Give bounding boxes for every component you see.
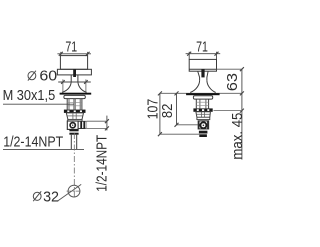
extension line 63 top: [217, 68, 242, 70]
svg-text:1/2-14NPT: 1/2-14NPT: [3, 134, 63, 150]
handle stem (side view): [201, 69, 204, 77]
dimension line 71 (front view): [57, 52, 91, 56]
svg-text:71: 71: [65, 39, 77, 55]
handle stem (front view): [73, 69, 76, 77]
neck taper (side view): [198, 71, 208, 80]
upper shank flange (side view): [193, 96, 212, 99]
bell escutcheon (side view): [190, 80, 216, 92]
lower shank nut (front view): [64, 110, 86, 113]
extension line 107: [160, 133, 199, 135]
tailpiece flange bands (side view): [199, 131, 208, 134]
tailpiece tube (front view): [71, 135, 76, 150]
handle knob (side view): [189, 59, 216, 71]
svg-text:32: 32: [43, 190, 59, 206]
cartridge cup (front view): [66, 113, 83, 120]
svg-text:63: 63: [225, 73, 241, 91]
dimension line 107: [158, 91, 162, 136]
upper shank flange (front view): [64, 95, 85, 98]
leader line diameter 32: [58, 184, 81, 201]
handle flange bar (front view): [57, 69, 91, 75]
right dimension line vertical (63 / max 45): [240, 67, 244, 159]
collar band (front view): [68, 119, 82, 121]
max mounting depth line: [214, 110, 242, 112]
lower shank nut (side view): [193, 108, 212, 111]
valve body (front view): [67, 121, 78, 129]
diameter label 60: [28, 68, 57, 84]
threaded shank (side view): [196, 99, 208, 108]
deck line (side view): [160, 92, 242, 94]
svg-text:1/2-14NPT: 1/2-14NPT: [94, 135, 110, 192]
extension line 82: [177, 124, 199, 126]
leader line M 30x1,5: [3, 103, 74, 105]
svg-text:max. 45: max. 45: [230, 113, 246, 160]
svg-text:60: 60: [39, 68, 57, 84]
side outlet (front view): [78, 121, 87, 128]
neck (front view): [71, 75, 78, 82]
svg-text:71: 71: [196, 39, 208, 55]
tailpiece flange bands (front view): [69, 129, 78, 131]
dimension line 82: [175, 91, 179, 126]
dimension line diameter 60: [58, 79, 91, 92]
svg-text:M 30x1,5: M 30x1,5: [3, 88, 56, 104]
handle knob (front view): [60, 56, 87, 70]
deck plate (side view): [186, 93, 220, 95]
deck plate (front view): [60, 93, 92, 95]
bell escutcheon (front view): [62, 81, 87, 92]
hole label diameter 32: [33, 190, 59, 206]
svg-text:82: 82: [160, 104, 176, 119]
svg-text:107: 107: [145, 99, 161, 120]
dimension line 71 (side view): [186, 52, 221, 60]
hole circle horizontal centerline: [67, 190, 82, 192]
outlet dimension extension lines: [87, 121, 107, 128]
centerline (front view): [73, 133, 75, 199]
hole circle diameter 32: [68, 185, 80, 197]
threaded shank (front view): [67, 99, 82, 110]
cartridge cup (side view): [196, 112, 211, 117]
leader line 1/2-14NPT: [3, 148, 84, 150]
collar band (side view): [197, 117, 210, 119]
outlet dimension line vertical: [105, 116, 109, 131]
valve body (side view): [198, 121, 208, 129]
